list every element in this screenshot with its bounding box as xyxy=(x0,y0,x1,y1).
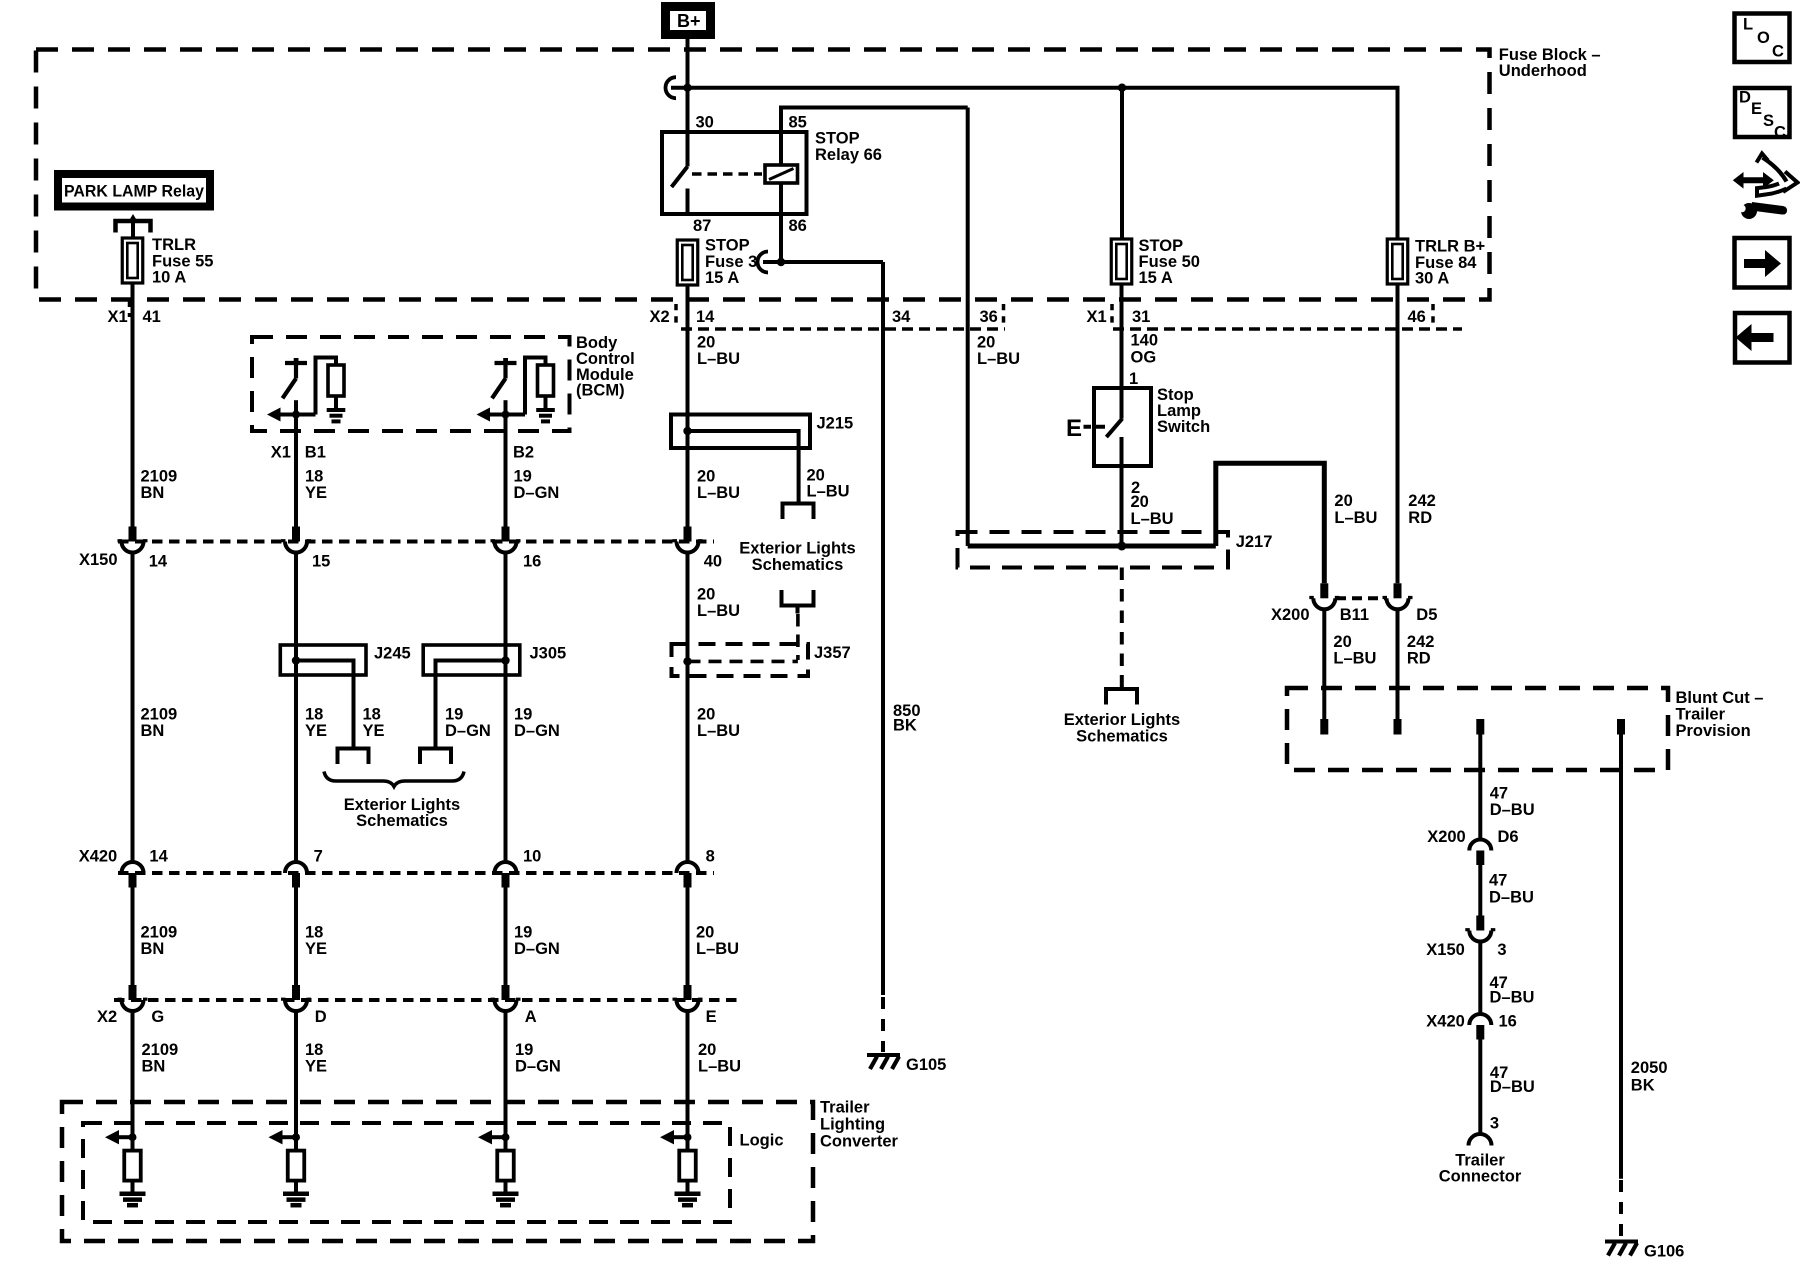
label Logic xyxy=(740,1132,784,1150)
junction node J305 xyxy=(501,656,509,664)
pin number 85 xyxy=(789,114,807,132)
svg-text:OG: OG xyxy=(1131,348,1157,366)
svg-text:X150: X150 xyxy=(79,551,118,569)
label pin 2 xyxy=(1131,479,1140,497)
label STOP Fuse 50 15 A xyxy=(1139,237,1200,287)
nav icon repair wrench xyxy=(1733,154,1798,220)
svg-text:15: 15 xyxy=(312,553,330,571)
park lamp relay output bracket xyxy=(116,214,151,239)
svg-text:8: 8 xyxy=(706,848,715,866)
label STOP Relay 66 xyxy=(815,130,882,165)
svg-text:2109: 2109 xyxy=(141,706,178,724)
terminal J245 branch xyxy=(338,749,369,765)
Logic dashed box xyxy=(83,1123,730,1222)
wire 18 YE segment 1 xyxy=(294,431,298,527)
svg-text:L–BU: L–BU xyxy=(1334,509,1377,527)
svg-text:36: 36 xyxy=(980,308,998,326)
label J305 xyxy=(530,645,567,663)
label TRLR B+ Fuse 84 30 A xyxy=(1415,238,1485,288)
svg-text:STOP: STOP xyxy=(705,237,750,255)
wire 47 D-BU segment 1 xyxy=(1478,735,1482,840)
svg-text:2050: 2050 xyxy=(1631,1059,1668,1077)
svg-text:D–BU: D–BU xyxy=(1490,801,1535,819)
svg-text:47: 47 xyxy=(1490,785,1508,803)
svg-text:BK: BK xyxy=(1631,1076,1655,1094)
svg-text:Relay 66: Relay 66 xyxy=(815,146,882,164)
connector tick X1|31 xyxy=(1110,304,1114,326)
junction node B+/fuse50 xyxy=(1118,84,1126,92)
svg-text:L–BU: L–BU xyxy=(697,722,740,740)
label TRLR Fuse 55 10 A xyxy=(152,236,213,287)
svg-text:YE: YE xyxy=(363,722,385,740)
svg-text:2109: 2109 xyxy=(142,1041,179,1059)
svg-text:X1: X1 xyxy=(271,444,291,462)
Fuse Block - Underhood dashed box xyxy=(36,50,1490,300)
svg-text:O: O xyxy=(1757,29,1770,47)
label X200 B11 D5 xyxy=(1271,606,1437,624)
label 20 L-BU main below J215 xyxy=(697,467,740,502)
svg-text:TRLR B+: TRLR B+ xyxy=(1415,238,1485,256)
svg-text:E: E xyxy=(1066,415,1082,442)
label Body Control Module (BCM) xyxy=(576,334,635,400)
wire 2109 BN segment 2 xyxy=(131,553,135,863)
wire 20 L-BU into blunt cut xyxy=(1322,609,1326,719)
svg-text:D–BU: D–BU xyxy=(1489,889,1534,907)
label pin 1 xyxy=(1129,370,1138,388)
splice J215 internal bar xyxy=(688,431,799,448)
ground G106 xyxy=(1605,1242,1684,1261)
splice J357 dashed box xyxy=(672,644,809,676)
label pin 34 xyxy=(892,308,911,326)
svg-text:18: 18 xyxy=(305,706,323,724)
svg-text:19: 19 xyxy=(514,467,532,485)
wire 20 L-BU switch to J217 xyxy=(1120,466,1124,546)
label 18 YE xyxy=(305,467,327,502)
junction node J357 xyxy=(683,657,691,665)
svg-text:X420: X420 xyxy=(79,848,118,866)
wire B+ stem to relay pin 30 xyxy=(686,39,690,132)
wire 2109 BN segment 4 xyxy=(131,1011,135,1137)
svg-text:20: 20 xyxy=(697,586,715,604)
PARK LAMP Relay label box xyxy=(58,174,210,207)
wire 242 RD into blunt cut xyxy=(1396,609,1400,719)
junction node 86 wire xyxy=(777,258,785,266)
wire 242 RD fuse 84 down xyxy=(1396,284,1400,583)
svg-text:RD: RD xyxy=(1407,650,1431,668)
blunt start 47 D-BU xyxy=(1476,719,1484,735)
junction node J245 xyxy=(292,656,300,664)
stop lamp switch upper stub xyxy=(1120,388,1124,419)
wire 20 L-BU segment 3 xyxy=(686,888,690,986)
Trailer Lighting Converter dashed box xyxy=(62,1102,813,1241)
svg-text:40: 40 xyxy=(704,553,722,571)
wire 19 D-GN segment 1 xyxy=(504,431,508,527)
label 2109 BN xyxy=(141,467,178,502)
connector X150 pin 14 xyxy=(118,527,168,571)
svg-text:BN: BN xyxy=(141,722,165,740)
brace exterior lights xyxy=(324,772,464,787)
stop lamp switch arm xyxy=(1106,419,1122,438)
svg-text:X200: X200 xyxy=(1427,828,1466,846)
label Trailer Lighting Converter xyxy=(820,1099,899,1151)
svg-text:L–BU: L–BU xyxy=(977,350,1020,368)
label Stop Lamp Switch xyxy=(1157,386,1210,436)
svg-text:Provision: Provision xyxy=(1676,722,1751,740)
label J217 xyxy=(1236,533,1273,551)
svg-text:J305: J305 xyxy=(530,645,567,663)
splice J245 internal bar and branch xyxy=(296,661,354,749)
label B2 xyxy=(513,444,534,462)
wire 20 L-BU segment 2 xyxy=(686,553,690,863)
label Exterior Lights Schematics right xyxy=(1064,711,1180,746)
connector tick X1|41 xyxy=(128,301,132,317)
connector row X2 dotted line xyxy=(114,998,739,1002)
svg-text:Trailer: Trailer xyxy=(1676,706,1726,724)
svg-text:L–BU: L–BU xyxy=(697,602,740,620)
label 20 L-BU above J357 xyxy=(697,586,740,621)
label 20 L-BU row C xyxy=(696,924,739,959)
splice J217 bar xyxy=(968,544,1216,549)
Blunt Cut Trailer Provision dashed box xyxy=(1287,688,1668,770)
wire 2050 BK dashed lead xyxy=(1619,1180,1623,1240)
label 18 YE branch xyxy=(363,706,385,741)
svg-text:B11: B11 xyxy=(1340,606,1369,624)
svg-text:BK: BK xyxy=(893,717,917,735)
svg-text:34: 34 xyxy=(892,308,911,326)
ground G105 xyxy=(867,1055,946,1074)
label 242 RD upper xyxy=(1408,492,1436,527)
relay pin 86 stub xyxy=(779,183,783,214)
svg-text:15 A: 15 A xyxy=(705,269,739,287)
svg-text:X1: X1 xyxy=(1087,308,1107,326)
connector X150 pin 3 xyxy=(1426,916,1506,960)
label 140 OG xyxy=(1131,332,1159,367)
svg-text:14: 14 xyxy=(149,553,168,571)
svg-text:20: 20 xyxy=(697,334,715,352)
terminal exterior lights below J217 xyxy=(1106,689,1137,705)
label E terminal xyxy=(1066,415,1082,442)
junction node B+/relay30 xyxy=(683,84,691,92)
svg-text:D–GN: D–GN xyxy=(514,484,560,502)
svg-text:Switch: Switch xyxy=(1157,418,1210,436)
label 20 L-BU branch xyxy=(807,467,850,501)
label 18 YE row D xyxy=(305,1041,327,1076)
label J215 xyxy=(817,415,854,433)
svg-text:B+: B+ xyxy=(677,11,701,31)
splice J215 box xyxy=(671,415,810,449)
svg-text:X420: X420 xyxy=(1426,1013,1465,1031)
fuse F50 STOP Fuse 50 15A xyxy=(1111,239,1132,284)
wire 20 L-BU segment 4 xyxy=(686,1011,690,1137)
pin number 30 xyxy=(696,114,714,132)
label 2050 BK xyxy=(1631,1059,1668,1095)
svg-text:41: 41 xyxy=(143,308,161,326)
svg-text:18: 18 xyxy=(305,467,323,485)
svg-text:L–BU: L–BU xyxy=(1333,650,1376,668)
svg-text:BN: BN xyxy=(141,940,165,958)
label 20 L-BU row D xyxy=(698,1041,741,1076)
wire 47 D-BU segment 3 xyxy=(1478,942,1482,1015)
svg-text:D–BU: D–BU xyxy=(1490,989,1535,1007)
blunt start 2050 BK xyxy=(1617,719,1625,735)
connector tick X2|14 xyxy=(674,304,678,326)
wire J215 branch 20 L-BU xyxy=(797,448,801,504)
nav icon DESC xyxy=(1735,88,1790,142)
wire 2109 BN segment 3 xyxy=(131,888,135,986)
label pin 36 xyxy=(980,308,998,326)
wire 19 D-GN segment 2 xyxy=(504,553,508,863)
E terminal dash link xyxy=(1084,425,1106,429)
wire 18 YE segment 3 xyxy=(294,888,298,986)
wire 19 D-GN segment 4 xyxy=(504,1011,508,1137)
relay pin 85 stub xyxy=(779,132,783,165)
svg-text:D–BU: D–BU xyxy=(1490,1078,1535,1096)
label X2 14 xyxy=(650,308,716,326)
svg-text:L–BU: L–BU xyxy=(696,940,739,958)
connector X2 pin E xyxy=(673,985,717,1026)
svg-text:YE: YE xyxy=(305,1058,327,1076)
svg-text:L: L xyxy=(1743,16,1753,34)
svg-text:20: 20 xyxy=(1333,633,1351,651)
connector line X2 fine dotted segment xyxy=(681,327,1005,331)
svg-text:L–BU: L–BU xyxy=(1131,510,1174,528)
svg-text:19: 19 xyxy=(515,1041,533,1059)
svg-text:Schematics: Schematics xyxy=(1076,728,1168,746)
wire 2109 BN segment 1 xyxy=(131,283,135,527)
svg-text:1: 1 xyxy=(1129,370,1138,388)
label 20 L-BU pin 36 xyxy=(977,334,1020,369)
svg-text:TRLR: TRLR xyxy=(152,236,196,254)
svg-text:18: 18 xyxy=(305,1041,323,1059)
label 18 YE row B xyxy=(305,706,327,741)
label 2109 BN row C xyxy=(141,924,178,959)
svg-text:Converter: Converter xyxy=(820,1133,899,1151)
connector X200 pin B11 xyxy=(1309,583,1339,609)
svg-text:X1: X1 xyxy=(108,308,128,326)
label 47 D-BU 1 xyxy=(1490,785,1535,820)
wire dashed to J357 xyxy=(796,614,800,660)
svg-text:Schematics: Schematics xyxy=(356,812,448,830)
converter input stage G xyxy=(105,1130,146,1205)
svg-text:D5: D5 xyxy=(1416,606,1437,624)
svg-text:D6: D6 xyxy=(1498,828,1519,846)
connector X2 pin G xyxy=(118,985,165,1026)
svg-text:STOP: STOP xyxy=(815,130,860,148)
BCM driver output B2 xyxy=(477,358,555,432)
svg-text:46: 46 xyxy=(1408,308,1426,326)
fuse F3 STOP Fuse 3 15A xyxy=(677,240,698,285)
connector tick 36 xyxy=(1002,304,1006,326)
svg-text:242: 242 xyxy=(1407,633,1435,651)
converter input stage E xyxy=(660,1130,701,1205)
fuse F84 TRLR B+ Fuse 84 30A xyxy=(1387,239,1408,284)
wire 850 BK dashed lead xyxy=(881,997,885,1052)
nav icon forward arrow xyxy=(1735,238,1790,288)
svg-text:B2: B2 xyxy=(513,444,534,462)
connector row X150 dotted line xyxy=(118,540,714,544)
svg-text:YE: YE xyxy=(305,722,327,740)
relay coil box xyxy=(765,165,798,183)
crossover hook at B+ bus start xyxy=(666,77,677,98)
wire 20 L-BU pin 36 drop xyxy=(966,108,970,547)
wire 20 L-BU segment 1 xyxy=(686,285,690,527)
splice J245 box xyxy=(280,645,366,675)
svg-text:RD: RD xyxy=(1408,509,1432,527)
svg-text:L–BU: L–BU xyxy=(697,350,740,368)
svg-text:J357: J357 xyxy=(814,644,851,662)
svg-text:L–BU: L–BU xyxy=(807,483,850,501)
svg-text:S: S xyxy=(1763,112,1774,130)
svg-text:19: 19 xyxy=(445,706,463,724)
label X150 xyxy=(79,551,118,569)
stop lamp switch box xyxy=(1094,388,1151,466)
svg-text:YE: YE xyxy=(305,484,327,502)
label pin 3 trailer xyxy=(1490,1115,1499,1133)
svg-text:D–GN: D–GN xyxy=(514,940,560,958)
label 20 L-BU B11 lower xyxy=(1333,633,1376,668)
svg-text:X200: X200 xyxy=(1271,606,1310,624)
svg-text:14: 14 xyxy=(149,848,168,866)
label 20 L-BU below switch xyxy=(1131,493,1174,528)
wire 18 YE segment 4 xyxy=(294,1011,298,1137)
relay actuation dashed link xyxy=(692,172,762,176)
pin number 87 xyxy=(693,217,711,235)
relay switch arm xyxy=(672,167,688,188)
svg-text:31: 31 xyxy=(1132,308,1150,326)
svg-text:J217: J217 xyxy=(1236,533,1273,551)
BCM dashed box xyxy=(252,337,570,431)
terminal from exterior lights to J357 xyxy=(782,590,814,614)
svg-text:19: 19 xyxy=(514,706,532,724)
svg-text:D–GN: D–GN xyxy=(514,722,560,740)
label 47 D-BU 2 xyxy=(1489,872,1534,907)
svg-text:140: 140 xyxy=(1131,332,1159,350)
label X1 31 xyxy=(1087,308,1151,326)
splice J357 internal dashed bar xyxy=(688,660,798,664)
pin number 86 xyxy=(789,217,807,235)
svg-text:20: 20 xyxy=(696,924,714,942)
svg-text:G105: G105 xyxy=(906,1056,946,1074)
svg-text:YE: YE xyxy=(305,940,327,958)
label Fuse Block - Underhood xyxy=(1499,46,1601,80)
stop lamp switch lower stub xyxy=(1120,437,1124,466)
label 19 D-GN row C xyxy=(514,924,560,959)
connector X150 pin 16 xyxy=(491,527,542,571)
wire dashed J217 to exterior lights xyxy=(1120,568,1124,689)
svg-text:18: 18 xyxy=(305,924,323,942)
connector X420 pin 16 xyxy=(1426,1013,1517,1040)
connector row X420 dotted line xyxy=(118,871,714,875)
label 19 D-GN row D xyxy=(515,1041,561,1076)
splice J305 internal bar and branch xyxy=(436,661,506,749)
wire 850 BK to ground xyxy=(881,262,885,995)
svg-text:E: E xyxy=(706,1008,717,1026)
svg-text:BN: BN xyxy=(141,484,165,502)
wire relay 85 to pin 36 feed xyxy=(781,108,968,166)
svg-text:85: 85 xyxy=(789,114,807,132)
relay pin 30 stub xyxy=(686,132,690,167)
connector X420 pin 14 xyxy=(122,848,169,888)
svg-text:Blunt Cut –: Blunt Cut – xyxy=(1676,689,1764,707)
svg-text:20: 20 xyxy=(697,706,715,724)
svg-text:20: 20 xyxy=(977,334,995,352)
svg-text:D: D xyxy=(1739,89,1751,107)
wire 47 D-BU segment 4 xyxy=(1478,1040,1482,1134)
label X1 B1 xyxy=(271,444,326,462)
svg-text:14: 14 xyxy=(696,308,715,326)
label 47 D-BU 3 xyxy=(1490,974,1535,1007)
label 242 RD lower xyxy=(1407,633,1435,668)
connector X2 pin A xyxy=(491,985,537,1026)
svg-text:PARK LAMP Relay: PARK LAMP Relay xyxy=(64,183,205,201)
label X1 41 xyxy=(108,308,161,326)
connector X200 dashed link xyxy=(1336,596,1386,600)
svg-text:86: 86 xyxy=(789,217,807,235)
svg-text:16: 16 xyxy=(1499,1013,1517,1031)
connector X150 pin 15 xyxy=(281,527,330,571)
wire switch output to X200 B11 xyxy=(1216,463,1325,583)
label 18 YE row C xyxy=(305,924,327,959)
label Trailer Connector xyxy=(1439,1152,1522,1186)
svg-text:Underhood: Underhood xyxy=(1499,62,1587,80)
label Exterior Lights Schematics left xyxy=(344,796,460,830)
label 19 D-GN row B xyxy=(514,706,560,741)
svg-text:D–GN: D–GN xyxy=(445,722,491,740)
label 47 D-BU 4 xyxy=(1490,1064,1535,1096)
wire 140 OG fuse 50 to switch xyxy=(1120,284,1124,388)
label X420 xyxy=(79,848,118,866)
svg-text:7: 7 xyxy=(314,848,323,866)
wire drop to STOP fuse 50 xyxy=(1120,88,1124,239)
nav icon LOC xyxy=(1735,14,1790,63)
connector X420 pin 10 xyxy=(495,848,542,888)
svg-text:242: 242 xyxy=(1408,492,1436,510)
svg-text:E: E xyxy=(1751,100,1762,118)
svg-text:Exterior Lights: Exterior Lights xyxy=(739,540,855,558)
label J357 xyxy=(814,644,851,662)
relay pin 87 stub xyxy=(686,189,690,215)
label STOP Fuse 3 15 A xyxy=(705,237,757,288)
svg-text:Schematics: Schematics xyxy=(752,556,844,574)
svg-text:X2: X2 xyxy=(97,1008,117,1026)
svg-text:19: 19 xyxy=(514,924,532,942)
svg-text:A: A xyxy=(525,1008,537,1026)
svg-text:Trailer: Trailer xyxy=(820,1099,870,1117)
terminal J305 branch xyxy=(420,749,451,765)
label J245 xyxy=(374,645,411,663)
blunt end 20 L-BU xyxy=(1320,719,1328,735)
relay K66 box xyxy=(662,132,807,214)
svg-text:J215: J215 xyxy=(817,415,854,433)
svg-text:BN: BN xyxy=(142,1058,166,1076)
svg-text:Exterior Lights: Exterior Lights xyxy=(1064,711,1180,729)
svg-text:20: 20 xyxy=(697,467,715,485)
connector X200 pin D5 xyxy=(1383,583,1413,609)
svg-text:X150: X150 xyxy=(1426,941,1465,959)
svg-text:B1: B1 xyxy=(305,444,326,462)
wire relay 86 horizontal to 34 drop xyxy=(763,260,883,264)
battery terminal B+ xyxy=(666,7,711,35)
svg-text:3: 3 xyxy=(1497,941,1506,959)
svg-text:D–GN: D–GN xyxy=(515,1058,561,1076)
label Exterior Lights Schematics mid xyxy=(739,540,855,575)
label 20 L-BU B11 upper xyxy=(1334,492,1377,527)
junction node J217 xyxy=(1117,542,1126,551)
terminal to exterior lights from J215 xyxy=(783,504,814,520)
svg-text:16: 16 xyxy=(523,553,541,571)
svg-text:J245: J245 xyxy=(374,645,411,663)
svg-text:Connector: Connector xyxy=(1439,1168,1522,1186)
